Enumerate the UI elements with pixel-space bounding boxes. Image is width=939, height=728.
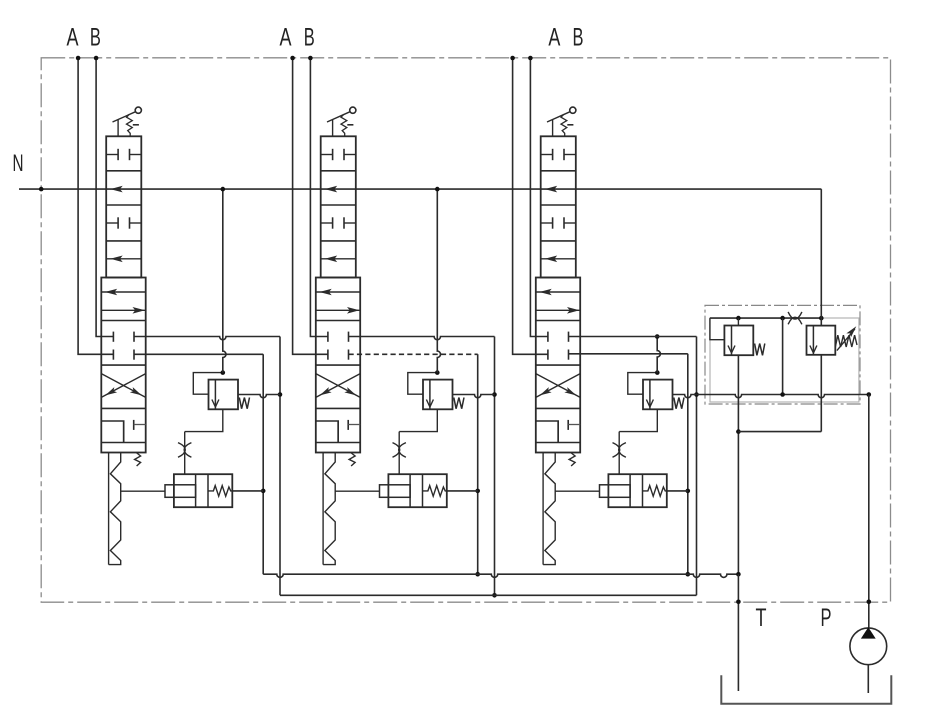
drain gallery lower wire — [280, 594, 697, 596]
flow arrow row4 section 3 — [541, 258, 576, 260]
flow arrow row2 section 1 — [110, 186, 123, 193]
wire B-row to drain gallery section 1 — [134, 337, 280, 340]
work port bars row6 section 1 — [112, 332, 114, 342]
wire port A section 3 — [513, 58, 548, 354]
compensator output wire section 1 — [238, 395, 280, 398]
compensator drain to throttle section 3 — [619, 409, 657, 431]
compensator spring section 3 — [674, 398, 684, 409]
pressure compensator section 3 — [628, 373, 658, 395]
wire port B section 2 — [310, 58, 328, 337]
spool end chamber row8 section 1 — [101, 421, 123, 443]
flow arrow row4 section 2 — [321, 258, 356, 260]
LS / bypass gallery wire — [672, 395, 869, 398]
throttle in relief pilot — [788, 312, 802, 319]
tank reservoir — [721, 675, 891, 704]
closed port symbols row3 section 3 — [541, 222, 553, 224]
relief valves drain wires — [737, 355, 739, 574]
wire port A section 1 — [78, 58, 113, 354]
throttle (restrictor) section 3 — [613, 443, 620, 458]
closed port symbols row1 section 1 — [106, 154, 118, 156]
pilot valve output wire section 3 — [667, 490, 688, 492]
pump P1 — [850, 628, 887, 665]
svg-text:A: A — [548, 24, 560, 52]
flow arrows row5 section 3 — [536, 291, 580, 293]
lever actuator section 1 — [135, 107, 141, 113]
inlet relief block grey frame — [710, 318, 859, 402]
flow arrow row2 section 3 — [545, 186, 558, 193]
spool return spring section 3 — [542, 453, 544, 565]
svg-text:N: N — [13, 150, 24, 177]
pilot valve section 1 — [174, 474, 232, 507]
unloading valve U1 — [724, 326, 753, 356]
wire N branch to compensator pilot section 2 — [437, 189, 440, 373]
svg-text:A: A — [280, 24, 292, 52]
wire A-row to pilot drain section 3 — [569, 353, 688, 355]
flow arrow row2 section 2 — [325, 186, 338, 193]
lever actuator section 3 — [570, 107, 576, 113]
lever actuator section 2 — [350, 107, 356, 113]
wire T to tank — [737, 574, 739, 691]
closed port symbols row1 section 3 — [541, 154, 553, 156]
directional valve upper spool stack section 3 — [541, 136, 576, 277]
spool end chamber row8 section 2 — [316, 421, 338, 443]
wire spool-spring to pilot valve section 3 — [555, 490, 599, 492]
pilot wire relief block — [710, 317, 821, 319]
closed port symbols row3 section 1 — [106, 222, 118, 224]
wire port B section 1 — [96, 58, 113, 337]
wire spool-spring to pilot valve section 2 — [335, 490, 379, 492]
closed port symbols row3 section 2 — [321, 222, 333, 224]
spool end chamber row8 section 3 — [536, 421, 558, 443]
pressure compensator section 1 — [193, 373, 223, 395]
svg-text:B: B — [90, 24, 101, 52]
frame: outer dash-dot boundary of valve block — [41, 58, 890, 602]
wire B-row to drain gallery section 3 — [569, 336, 697, 338]
compensator drain to throttle section 1 — [185, 409, 223, 431]
adjustable relief spring — [835, 335, 857, 347]
flow arrow row4 section 1 — [106, 258, 141, 260]
crossover arrows row7 section 3 — [536, 374, 580, 398]
pressure compensator section 2 — [408, 373, 438, 395]
throttle (restrictor) section 2 — [393, 443, 400, 458]
pilot branch wire down — [782, 318, 784, 394]
crossover arrows row7 section 1 — [101, 374, 145, 398]
compensator spring section 1 — [239, 398, 249, 409]
pilot valve section 2 — [388, 474, 446, 507]
svg-text:P: P — [821, 604, 832, 632]
spool return spring section 2 — [322, 453, 324, 565]
small spring at spool end section 3 — [569, 453, 575, 467]
wire: N pilot line across all sections — [19, 188, 821, 190]
inlet relief block dash-dot frame — [705, 305, 860, 404]
crossover arrows row7 section 2 — [316, 374, 360, 398]
main relief valve U2 feed from N — [820, 189, 822, 326]
work port bars row6 section 2 — [327, 332, 329, 342]
compensator drain to throttle section 2 — [399, 409, 437, 431]
flow arrows row5 section 1 — [101, 291, 145, 293]
pump suction wire — [867, 665, 869, 693]
svg-text:B: B — [573, 24, 584, 52]
flow arrows row5 section 2 — [316, 291, 360, 293]
small spring at spool end section 1 — [135, 453, 141, 467]
unloading valve spring — [755, 344, 765, 356]
directional valve lower spool stack section 1 — [101, 278, 145, 453]
wire spool-spring to pilot valve section 1 — [121, 490, 165, 492]
pilot valve section 3 — [608, 474, 666, 507]
wire P supply — [868, 395, 870, 628]
wire B-row to drain gallery section 2 — [349, 337, 495, 340]
pilot valve output wire section 1 — [232, 490, 263, 492]
throttle (restrictor) section 1 — [178, 443, 185, 458]
directional valve lower spool stack section 2 — [316, 278, 360, 453]
main relief valve U2 — [807, 326, 836, 355]
pilot valve spring section 3 — [643, 486, 667, 497]
closed port symbols row1 section 2 — [321, 154, 333, 156]
small spring at spool end section 2 — [349, 453, 355, 467]
directional valve upper spool stack section 2 — [321, 136, 356, 277]
wire A-row to pilot drain section 1 — [134, 353, 263, 355]
compensator spring section 2 — [454, 398, 464, 409]
compensator output wire section 2 — [453, 395, 495, 398]
svg-text:B: B — [304, 24, 315, 52]
wire B-row branch to compensator pilot section 3 — [657, 337, 660, 373]
directional valve lower spool stack section 3 — [536, 278, 580, 453]
work port bars row6 section 3 — [547, 332, 549, 342]
wire port A section 2 — [293, 58, 328, 354]
pilot valve output wire section 2 — [447, 490, 478, 492]
wire port B section 3 — [530, 58, 548, 337]
junction dot N at border — [39, 187, 44, 192]
wire A-row to pilot drain section 2 (dashed) — [349, 353, 478, 355]
spool return spring section 1 — [108, 453, 110, 565]
pilot valve spring section 2 — [423, 486, 447, 497]
svg-text:T: T — [756, 604, 767, 632]
directional valve upper spool stack section 1 — [106, 136, 141, 277]
tank return gallery wire T — [263, 574, 738, 577]
pilot valve spring section 1 — [208, 486, 232, 497]
unloading valve U1 pilot loop — [710, 318, 725, 340]
wire N branch to compensator pilot section 1 — [223, 189, 226, 373]
svg-text:A: A — [67, 24, 79, 52]
